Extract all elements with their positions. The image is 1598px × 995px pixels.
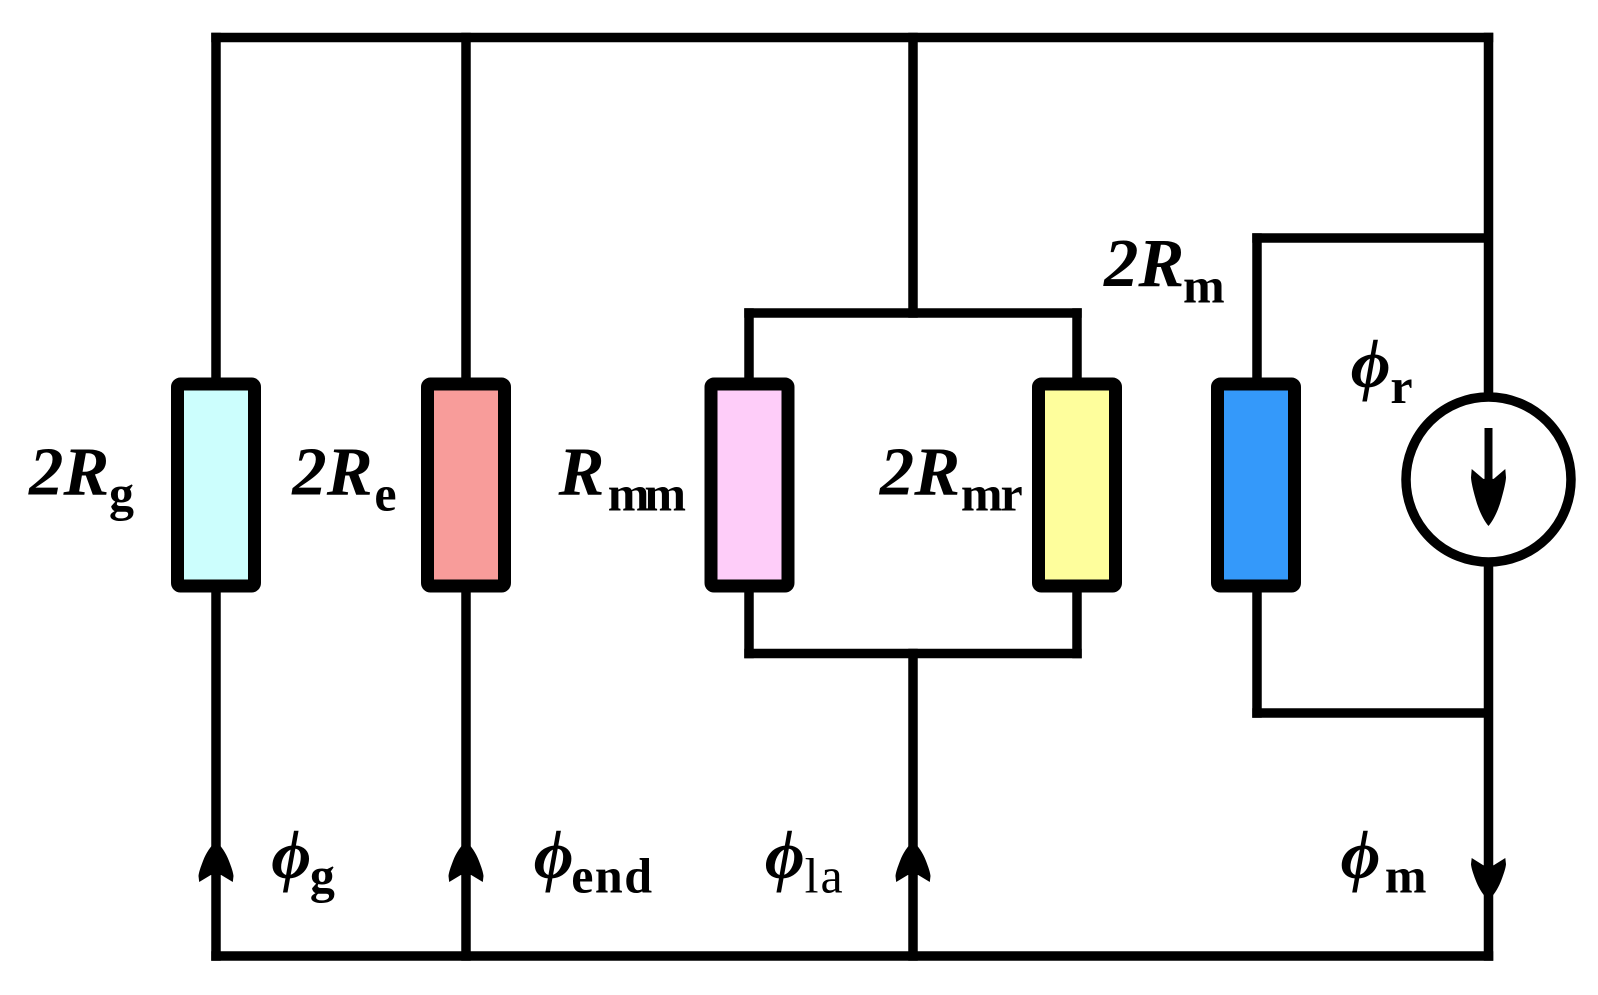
svg-text:2R: 2R	[1103, 225, 1184, 301]
svg-text:ϕ: ϕ	[1341, 817, 1381, 893]
svg-text:ϕ: ϕ	[1351, 326, 1391, 402]
svg-text:g: g	[310, 848, 335, 904]
svg-text:ϕ: ϕ	[271, 817, 311, 893]
svg-text:2R: 2R	[291, 434, 372, 510]
svg-text:mm: mm	[608, 466, 686, 522]
svg-text:r: r	[1390, 358, 1412, 414]
svg-text:g: g	[109, 466, 134, 522]
svg-text:2R: 2R	[879, 434, 960, 510]
svg-text:e: e	[374, 466, 396, 522]
svg-text:ϕ: ϕ	[765, 817, 805, 893]
svg-text:m: m	[1385, 848, 1427, 904]
svg-text:mr: mr	[961, 466, 1023, 522]
svg-text:end: end	[571, 848, 653, 904]
svg-text:ϕ: ϕ	[534, 817, 574, 893]
svg-text:la: la	[805, 848, 845, 904]
svg-text:m: m	[1183, 258, 1225, 314]
svg-text:2R: 2R	[28, 434, 109, 510]
svg-text:R: R	[558, 434, 605, 510]
